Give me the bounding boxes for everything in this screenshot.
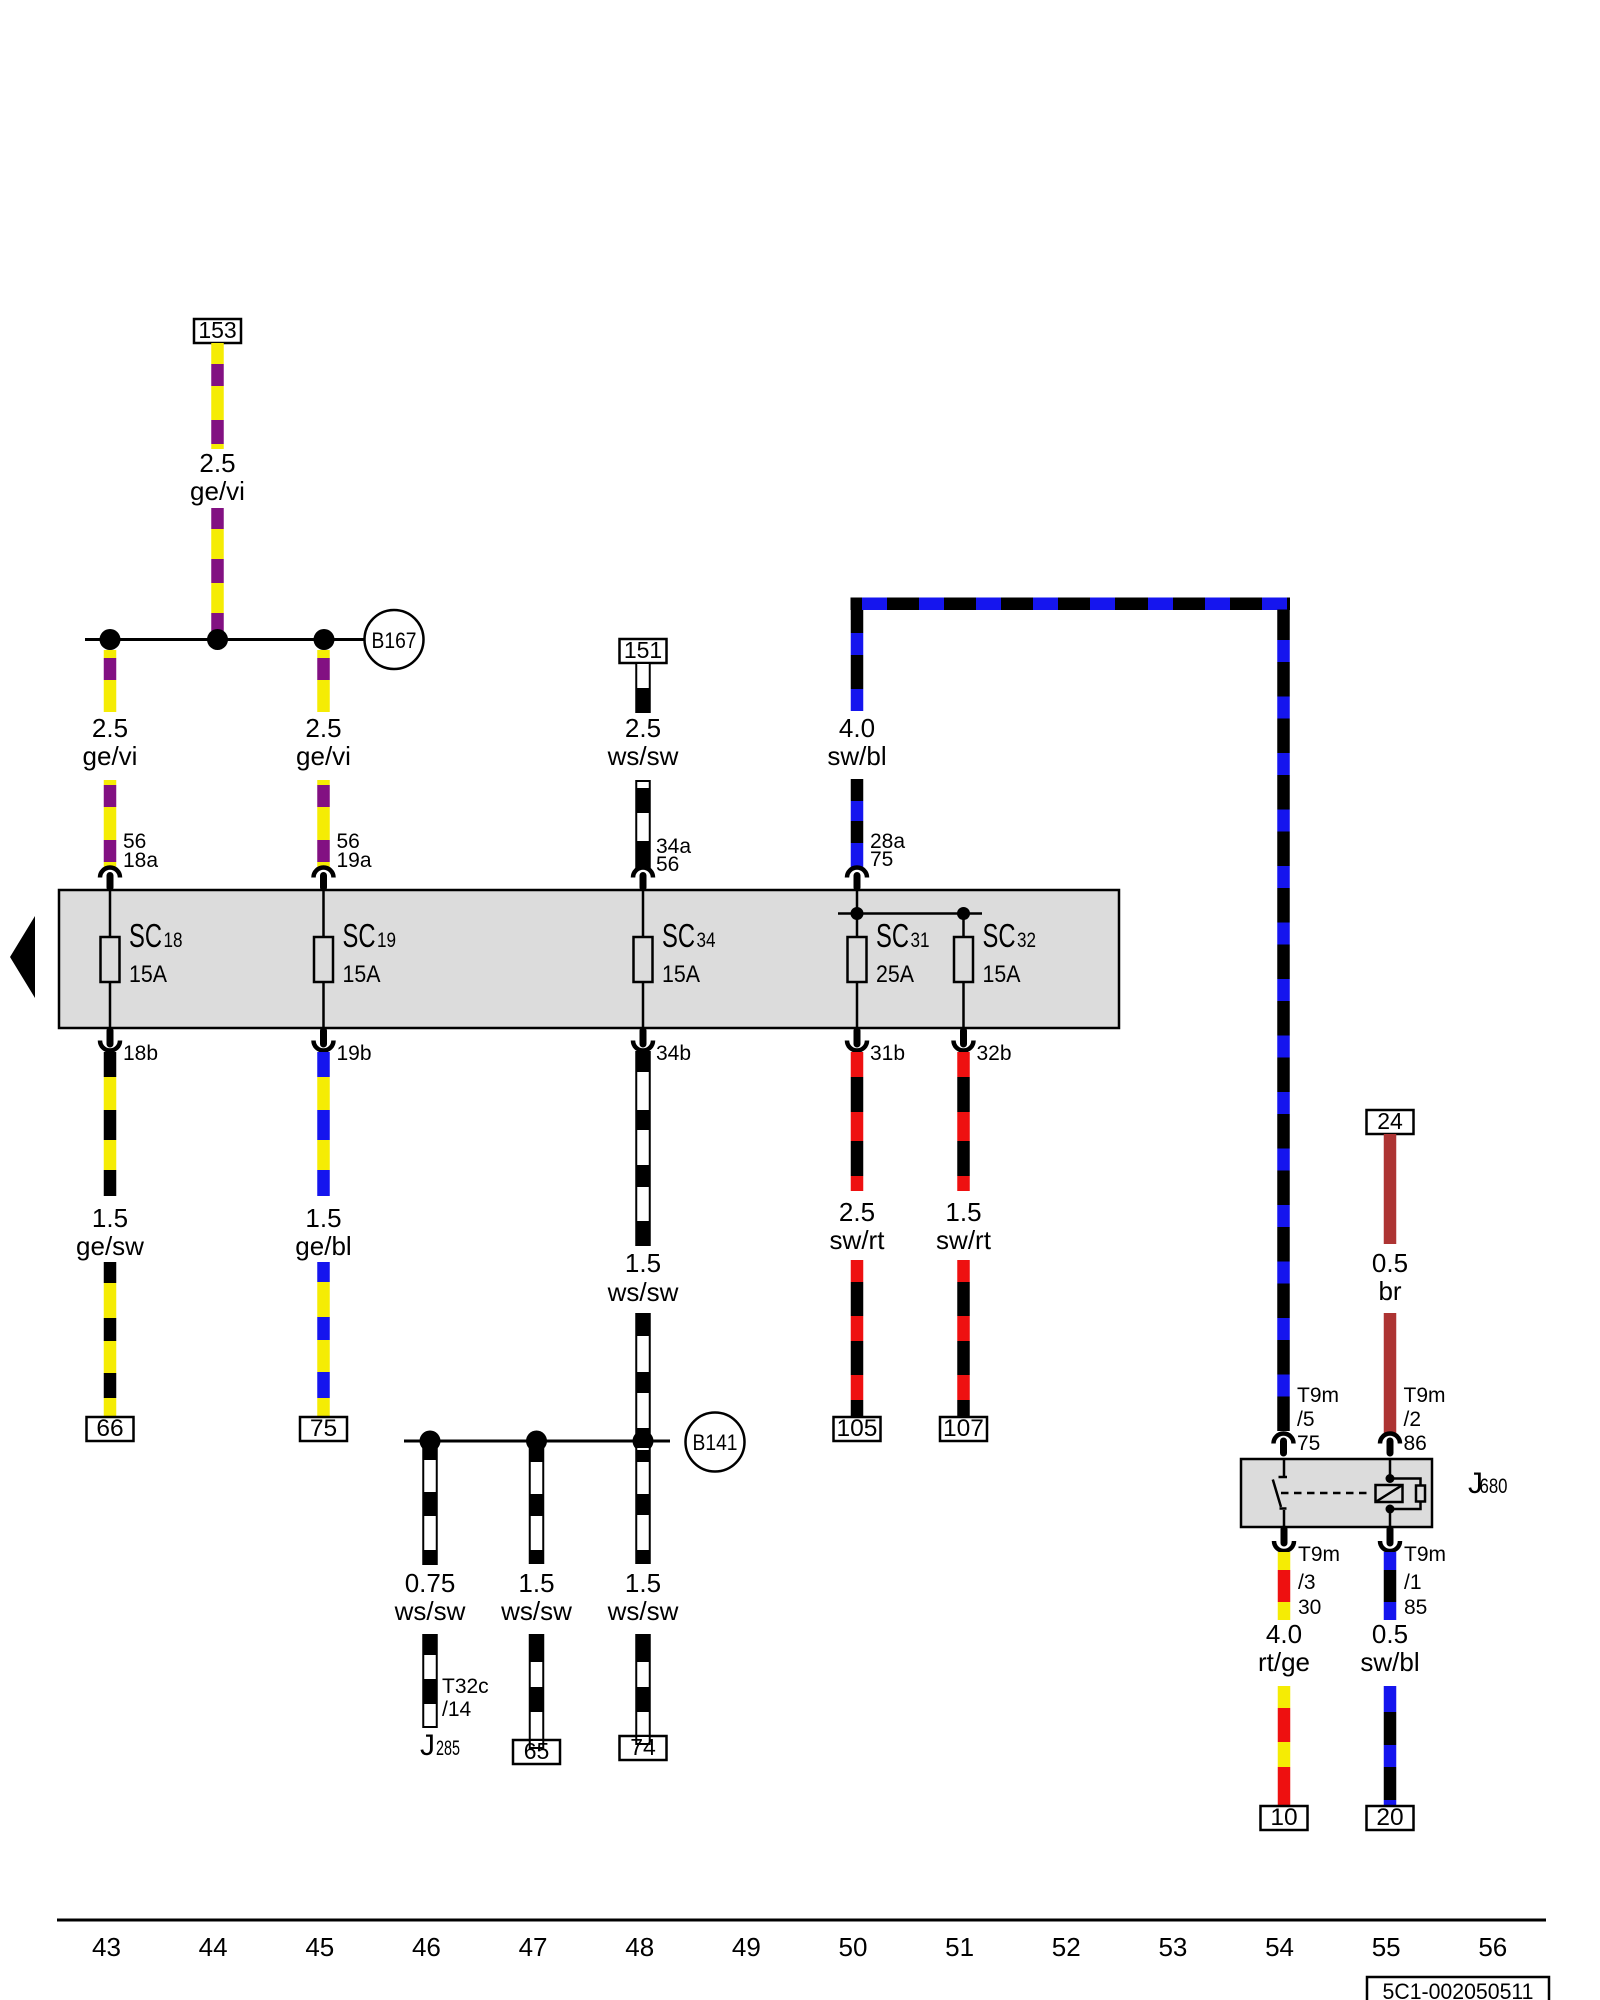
wire 0.75 ws/sw (upper): [423, 1447, 437, 1564]
label 1.5 ge/bl: [295, 1203, 351, 1261]
svg-text:18b: 18b: [123, 1042, 158, 1065]
svg-text:51: 51: [945, 1932, 974, 1962]
node terminal 10 box: [1261, 1804, 1308, 1831]
pin labels T9m /5 75: [1297, 1384, 1339, 1455]
node B167 bus wire: [85, 638, 364, 641]
svg-text:75: 75: [870, 848, 893, 871]
wire 1.5 ws/sw below B141 (upper): [636, 1447, 650, 1563]
svg-text:SC: SC: [876, 917, 909, 954]
svg-text:br: br: [1378, 1276, 1401, 1306]
label SC32: [983, 917, 1037, 954]
fuse SC32 wire in panel: [962, 914, 965, 1029]
svg-text:/14: /14: [442, 1698, 472, 1721]
svg-text:0.5: 0.5: [1372, 1248, 1408, 1278]
wire 0.5 sw/bl (lower): [1384, 1686, 1397, 1806]
wire 1.5 sw/rt (upper): [957, 1052, 970, 1191]
pin labels T9m /3 30: [1298, 1543, 1340, 1619]
pin label 18b: [123, 1042, 158, 1065]
svg-text:0.75: 0.75: [405, 1568, 456, 1598]
node terminal 65 box: [513, 1738, 560, 1764]
svg-text:2.5: 2.5: [839, 1197, 875, 1227]
wire 1.5 ws/sw (upper, 65): [530, 1447, 544, 1563]
fuse SC18 symbol: [101, 937, 120, 982]
svg-text:/5: /5: [1297, 1408, 1315, 1431]
svg-text:55: 55: [1372, 1932, 1401, 1962]
svg-text:sw/rt: sw/rt: [936, 1225, 992, 1255]
drawing number box: [1367, 1977, 1549, 2000]
connector T9m/5: [1274, 1434, 1294, 1454]
svg-text:sw/bl: sw/bl: [827, 741, 886, 771]
svg-text:SC: SC: [662, 917, 695, 954]
svg-text:B141: B141: [693, 1430, 738, 1455]
wire 1.5 ws/sw to B141: [636, 1314, 650, 1437]
wire 2.5 ge/vi to SC19 (lower): [317, 780, 330, 867]
connector 19a: [314, 868, 334, 888]
wire 4.0 rt/ge (lower): [1278, 1686, 1291, 1806]
junction dot B141-1: [420, 1431, 441, 1452]
svg-text:86: 86: [1404, 1432, 1427, 1455]
svg-text:2.5: 2.5: [625, 713, 661, 743]
wire 0.5 br (upper): [1384, 1134, 1397, 1244]
left continuation arrow: [10, 916, 35, 998]
wire 2.5 ge/vi to SC19 (upper): [317, 650, 330, 712]
label 1.5 ws/sw (SC34): [607, 1248, 679, 1307]
svg-text:ge/sw: ge/sw: [76, 1231, 144, 1261]
pin labels T9m /1 85: [1404, 1543, 1446, 1619]
pin label 19b: [337, 1042, 372, 1065]
wire 4.0 sw/bl top corner: [851, 609, 864, 711]
node label B141: [686, 1413, 745, 1472]
svg-text:ge/vi: ge/vi: [190, 476, 245, 506]
svg-text:/1: /1: [1404, 1571, 1422, 1594]
label 1.5 ge/sw: [76, 1203, 144, 1261]
svg-text:19: 19: [377, 929, 396, 952]
svg-text:53: 53: [1158, 1932, 1187, 1962]
fuse SC34 symbol: [634, 937, 653, 982]
junction dot SC31 branch: [851, 907, 864, 920]
grid numbers 43-56: [92, 1932, 1507, 1962]
label 15A (SC32): [983, 961, 1021, 988]
svg-text:19b: 19b: [337, 1042, 372, 1065]
svg-text:2.5: 2.5: [199, 448, 235, 478]
label 0.5 sw/bl: [1360, 1619, 1419, 1677]
label J285: [420, 1729, 460, 1762]
label SC31: [876, 917, 930, 954]
label 2.5 ge/vi (SC19): [296, 713, 351, 771]
svg-text:1.5: 1.5: [945, 1197, 981, 1227]
wire 4.0 sw/bl vertical run: [1277, 610, 1290, 1432]
pin labels T9m /2 86: [1404, 1384, 1446, 1455]
connector 31b: [847, 1031, 867, 1051]
svg-text:31b: 31b: [870, 1042, 905, 1065]
svg-text:56: 56: [656, 853, 679, 876]
wire 0.75 ws/sw (lower): [423, 1635, 437, 1727]
node terminal 105 box: [834, 1415, 881, 1442]
svg-text:32: 32: [1017, 929, 1036, 952]
svg-text:0.5: 0.5: [1372, 1619, 1408, 1649]
label 0.5 br: [1372, 1248, 1408, 1306]
svg-text:285: 285: [436, 1737, 460, 1760]
connector 34b: [633, 1031, 653, 1051]
svg-text:1.5: 1.5: [305, 1203, 341, 1233]
svg-text:680: 680: [1480, 1475, 1508, 1498]
fuse SC19 symbol: [314, 937, 333, 982]
svg-text:24: 24: [1377, 1108, 1403, 1134]
label 2.5 ge/vi (SC18): [83, 713, 138, 771]
fuse SC31 wire in panel: [856, 890, 859, 1028]
svg-text:66: 66: [96, 1415, 123, 1442]
connector 28a: [847, 868, 867, 888]
svg-text:T9m: T9m: [1404, 1384, 1446, 1407]
svg-text:153: 153: [198, 317, 236, 343]
svg-text:74: 74: [630, 1734, 656, 1760]
svg-text:ws/sw: ws/sw: [394, 1596, 466, 1626]
svg-text:1.5: 1.5: [92, 1203, 128, 1233]
svg-text:75: 75: [1297, 1432, 1320, 1455]
wire 4.0 sw/bl horizontal run: [851, 598, 1291, 611]
connector 32b: [954, 1031, 974, 1051]
node terminal 107 box: [940, 1415, 987, 1442]
node terminal 24 box: [1367, 1108, 1414, 1134]
branch wire SC31-SC32: [838, 912, 982, 915]
label 15A (SC18): [129, 961, 167, 988]
svg-text:ws/sw: ws/sw: [607, 1277, 679, 1307]
pin label 31b: [870, 1042, 905, 1065]
label J680: [1468, 1467, 1508, 1500]
svg-text:151: 151: [624, 637, 662, 663]
wire 4.0 rt/ge (upper): [1278, 1552, 1291, 1620]
svg-text:65: 65: [524, 1738, 550, 1764]
svg-text:T9m: T9m: [1297, 1384, 1339, 1407]
fuse panel S (grey band): [59, 890, 1119, 1028]
fuse SC31 symbol: [848, 937, 867, 982]
label 4.0 sw/bl: [827, 713, 886, 771]
svg-text:rt/ge: rt/ge: [1258, 1647, 1310, 1677]
svg-text:15A: 15A: [343, 961, 381, 988]
svg-text:ge/vi: ge/vi: [296, 741, 351, 771]
wire 4.0 sw/bl to SC31: [851, 779, 864, 867]
pin label 34b: [656, 1042, 691, 1065]
label SC34: [662, 917, 716, 954]
svg-text:32b: 32b: [977, 1042, 1012, 1065]
svg-text:19a: 19a: [337, 849, 372, 872]
svg-text:SC: SC: [343, 917, 376, 954]
wire 2.5 ws/sw from 151 (lower): [636, 781, 650, 867]
svg-text:47: 47: [519, 1932, 548, 1962]
junction dot B167-1: [100, 629, 121, 650]
wire 2.5 ge/vi to SC18 (upper): [104, 650, 117, 712]
pin labels 56 / 19a: [337, 830, 372, 872]
label 1.5 ws/sw (74): [607, 1568, 679, 1626]
node terminal 151 box: [620, 637, 667, 663]
svg-text:2.5: 2.5: [92, 713, 128, 743]
wire 1.5 ge/sw (lower): [104, 1262, 117, 1417]
pin labels 56 / 18a: [123, 830, 158, 872]
svg-text:sw/rt: sw/rt: [830, 1225, 886, 1255]
connector 18b: [100, 1031, 120, 1051]
svg-text:44: 44: [199, 1932, 228, 1962]
fuse SC34 wire in panel: [642, 890, 645, 1028]
connector T9m/1: [1380, 1529, 1400, 1551]
svg-text:18: 18: [164, 929, 183, 952]
label 1.5 ws/sw (65): [500, 1568, 572, 1626]
svg-text:ge/bl: ge/bl: [295, 1231, 351, 1261]
label 15A (SC19): [343, 961, 381, 988]
pin labels 34a / 56: [656, 835, 691, 876]
svg-text:18a: 18a: [123, 849, 158, 872]
svg-text:J: J: [420, 1729, 435, 1762]
svg-text:SC: SC: [129, 917, 162, 954]
wire 0.5 br (lower): [1384, 1313, 1397, 1433]
fuse SC32 symbol: [954, 937, 973, 982]
wire 0.5 sw/bl (upper): [1384, 1552, 1397, 1620]
label 2.5 sw/rt: [830, 1197, 886, 1255]
wire 2.5 ge/vi from 153 (lower): [211, 508, 224, 631]
wire 1.5 ge/bl (lower): [317, 1262, 330, 1417]
grid ruler line: [57, 1919, 1546, 1922]
svg-text:15A: 15A: [662, 961, 700, 988]
svg-text:ws/sw: ws/sw: [607, 1596, 679, 1626]
node terminal 153 box: [194, 317, 241, 343]
label SC18: [129, 917, 183, 954]
connector 19b: [314, 1031, 334, 1051]
wire 1.5 ge/bl (upper): [317, 1052, 330, 1196]
node terminal 20 box: [1367, 1804, 1414, 1831]
relay J680 body: [1241, 1459, 1432, 1527]
svg-text:ws/sw: ws/sw: [607, 741, 679, 771]
wire 2.5 sw/rt (upper): [851, 1052, 864, 1191]
wire 2.5 ws/sw from 151 (upper): [636, 663, 650, 712]
svg-text:25A: 25A: [876, 961, 914, 988]
connector T9m/3: [1274, 1529, 1294, 1551]
label 15A (SC34): [662, 961, 700, 988]
node terminal 66 box: [87, 1415, 134, 1442]
svg-text:1.5: 1.5: [625, 1248, 661, 1278]
connector 34a: [633, 868, 653, 888]
svg-text:52: 52: [1052, 1932, 1081, 1962]
svg-text:75: 75: [310, 1415, 337, 1442]
svg-text:4.0: 4.0: [1266, 1619, 1302, 1649]
svg-text:56: 56: [1478, 1932, 1507, 1962]
wire 1.5 sw/rt (lower): [957, 1260, 970, 1417]
svg-text:49: 49: [732, 1932, 761, 1962]
node label B167: [365, 610, 424, 669]
svg-text:B167: B167: [372, 628, 417, 653]
relay actuation dashed link: [1281, 1492, 1372, 1495]
wire 1.5 ws/sw (lower, 74): [636, 1635, 650, 1736]
label SC19: [343, 917, 397, 954]
svg-text:1.5: 1.5: [518, 1568, 554, 1598]
svg-text:/2: /2: [1404, 1408, 1422, 1431]
label 4.0 rt/ge: [1258, 1619, 1310, 1677]
svg-text:SC: SC: [983, 917, 1016, 954]
junction dot B167-3: [314, 629, 335, 650]
relay coil (pin 86-85): [1376, 1459, 1426, 1527]
wire 2.5 ge/vi to SC18 (lower): [104, 780, 117, 867]
svg-text:ws/sw: ws/sw: [500, 1596, 572, 1626]
svg-text:T9m: T9m: [1298, 1543, 1340, 1566]
svg-text:34: 34: [697, 929, 716, 952]
svg-text:/3: /3: [1298, 1571, 1316, 1594]
svg-text:5C1-002050511: 5C1-002050511: [1383, 1979, 1534, 2000]
svg-text:1.5: 1.5: [625, 1568, 661, 1598]
svg-text:105: 105: [837, 1415, 878, 1442]
wire 1.5 ws/sw below SC34 (upper): [636, 1052, 650, 1245]
junction dot SC32 branch: [957, 907, 970, 920]
svg-text:ge/vi: ge/vi: [83, 741, 138, 771]
svg-text:2.5: 2.5: [305, 713, 341, 743]
wire 1.5 ws/sw (lower, 65): [530, 1635, 544, 1740]
svg-text:15A: 15A: [983, 961, 1021, 988]
svg-text:30: 30: [1298, 1596, 1321, 1619]
connector 18a: [100, 868, 120, 888]
fuse SC18 wire in panel: [109, 890, 112, 1028]
junction dot B141-3: [633, 1431, 654, 1452]
svg-text:48: 48: [625, 1932, 654, 1962]
svg-text:T32c: T32c: [442, 1675, 489, 1698]
pin label 32b: [977, 1042, 1012, 1065]
connector T9m/2: [1380, 1434, 1400, 1454]
junction dot B167-2: [207, 629, 228, 650]
svg-text:45: 45: [305, 1932, 334, 1962]
svg-text:20: 20: [1376, 1804, 1403, 1831]
wire 2.5 sw/rt (lower): [851, 1260, 864, 1417]
pin label T32c /14: [442, 1675, 489, 1721]
wire 1.5 ge/sw (upper): [104, 1052, 117, 1196]
fuse SC19 wire in panel: [322, 890, 325, 1028]
svg-text:10: 10: [1270, 1804, 1297, 1831]
svg-text:107: 107: [943, 1415, 984, 1442]
svg-text:15A: 15A: [129, 961, 167, 988]
node terminal 74 box: [620, 1734, 667, 1760]
junction dot B141-2: [526, 1431, 547, 1452]
svg-text:85: 85: [1404, 1596, 1427, 1619]
svg-text:50: 50: [839, 1932, 868, 1962]
node B141 bus wire: [404, 1440, 670, 1443]
node terminal 75 box: [300, 1415, 347, 1442]
label 1.5 sw/rt: [936, 1197, 992, 1255]
wire 2.5 ge/vi from 153 (upper): [211, 343, 224, 449]
svg-text:sw/bl: sw/bl: [1360, 1647, 1419, 1677]
label 25A (SC31): [876, 961, 914, 988]
label 0.75 ws/sw: [394, 1568, 466, 1626]
svg-text:34b: 34b: [656, 1042, 691, 1065]
label 2.5 ge/vi (153 wire): [190, 448, 245, 506]
svg-text:4.0: 4.0: [839, 713, 875, 743]
pin labels 28a / 75: [870, 830, 905, 871]
svg-text:43: 43: [92, 1932, 121, 1962]
svg-text:31: 31: [911, 929, 930, 952]
svg-text:T9m: T9m: [1404, 1543, 1446, 1566]
relay switch contact (pin 75-30): [1273, 1459, 1287, 1527]
svg-text:46: 46: [412, 1932, 441, 1962]
label 2.5 ws/sw (SC34): [607, 713, 679, 771]
svg-text:54: 54: [1265, 1932, 1294, 1962]
